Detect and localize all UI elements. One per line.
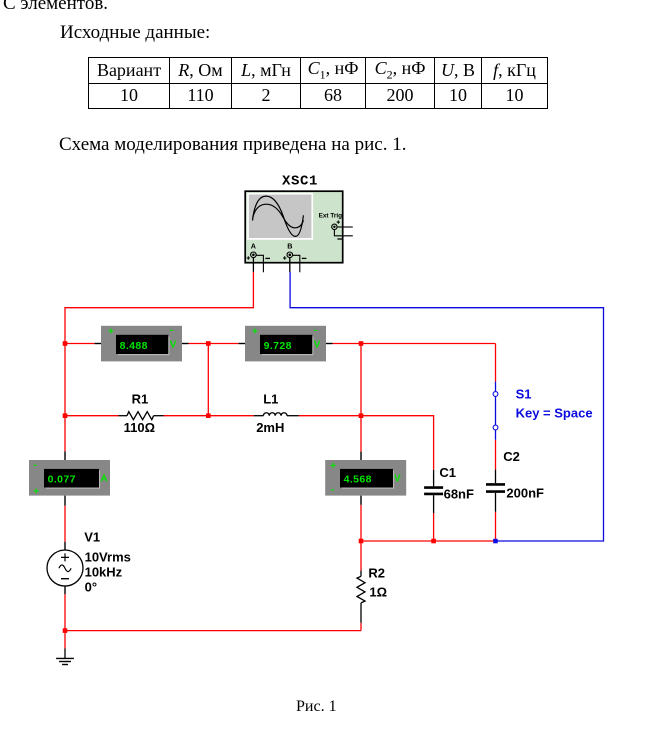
capacitor C2 [486,470,505,512]
junction node: mid node at voltmeter row [206,341,211,346]
wire: ammeter to V1 [64,506,66,542]
svg-text:+: + [252,327,258,338]
svg-text:+: + [33,487,39,498]
svg-text:A: A [251,241,256,250]
oscilloscope channel B pin stub [289,258,291,272]
oscilloscope channel A terminal [247,252,257,260]
wire: R2 bottom [360,623,362,631]
svg-text:C1: C1 [439,465,456,480]
junction node: left rail at voltmeter row [63,341,68,346]
svg-text:0°: 0° [85,580,97,595]
svg-text:XSC1: XSC1 [282,174,318,190]
wire: S1 to C2 [495,440,497,470]
svg-text:Ext Trig: Ext Trig [319,213,343,220]
wire: ground rail horizontal [65,630,361,632]
voltmeter U1 (8.488 V) [95,325,189,361]
oscilloscope channel B terminal [283,252,293,260]
oscilloscope Ext Trig terminal [332,220,340,229]
wire: scope channel A drop to left rail (red) [65,272,253,344]
svg-text:1Ω: 1Ω [369,585,387,600]
svg-text:+: + [108,327,114,338]
svg-text:V1: V1 [84,529,100,544]
wire: bottom net horizontal (red part) [361,540,496,542]
svg-text:V: V [394,474,401,485]
wire: scope channel B loop (blue) [290,272,603,541]
wire: L1 to C1 branch corner [299,416,434,470]
oscilloscope channel A minus lead [256,255,263,272]
oscilloscope channel A minus sign [265,257,270,259]
junction node: mid node at R1 row [206,413,211,418]
svg-text:110Ω: 110Ω [124,420,155,435]
wire: meter row between voltmeters [189,343,239,345]
wire: meter row to S1 branch [333,343,496,345]
svg-text:0.077: 0.077 [48,474,76,486]
ammeter U3 (0.077 A) [29,451,110,505]
wire: mid node vertical (between voltmeter row and R1 row) [207,344,209,416]
oscilloscope channel A pin stub [252,258,254,272]
svg-text:-: - [33,460,36,471]
svg-text:R2: R2 [368,566,385,581]
wire: node between second voltmeter and series voltmeter [360,344,362,416]
wire: meter row left [65,343,95,345]
svg-text:200nF: 200nF [506,486,544,501]
wire: series voltmeter drop [360,416,362,452]
oscilloscope channel B minus lead [293,255,300,272]
wire: V1 to ground rail [64,594,66,630]
voltmeter U4 (4.568 V) [325,452,406,505]
svg-text:V: V [170,340,177,351]
wire: R1 to L1 [164,415,254,417]
wire: R2 top [360,541,362,571]
wire: C2 to bottom net [495,512,497,541]
capacitor C1 [424,470,443,513]
svg-text:68nF: 68nF [444,486,474,501]
resistor R2 [357,571,365,623]
svg-text:C2: C2 [503,449,520,464]
junction node: L1 output node [359,413,364,418]
oscilloscope Ext Trig plus lead [337,226,353,228]
wire: left rail middle segment [64,344,66,416]
svg-text:4.568: 4.568 [344,474,372,486]
junction node: left rail at R1 row [63,413,68,418]
junction node: ground rail at V1 [63,628,68,633]
ground [56,649,74,665]
wire: C1 to bottom net [433,513,435,541]
resistor R1 [119,412,164,420]
wire: R1 row left [65,415,119,417]
svg-text:8.488: 8.488 [120,340,148,352]
wire: S1 branch down from meter row [495,344,497,382]
oscilloscope Ext Trig minus lead [334,230,352,236]
svg-text:V: V [314,340,321,351]
junction node: bottom net at C2 (blue) [493,539,498,544]
svg-text:2mH: 2mH [256,420,284,435]
svg-text:B: B [287,241,292,250]
junction node: right node at voltmeter row [359,341,364,346]
oscilloscope trace waveform channel B [253,204,304,228]
wire: left rail to ammeter [64,416,66,452]
svg-text:10Vrms: 10Vrms [85,550,131,565]
svg-text:-: - [314,325,317,336]
svg-text:A: A [100,474,107,485]
svg-text:-: - [331,485,334,496]
inductor L1 [254,413,299,416]
svg-text:9.728: 9.728 [264,340,292,352]
svg-text:R1: R1 [132,392,149,407]
svg-text:-: - [170,325,173,336]
wire: ground stub [64,631,66,649]
svg-text:S1: S1 [516,387,532,402]
voltmeter U2 (9.728 V) [239,325,333,361]
svg-text:L1: L1 [263,392,278,407]
junction node: bottom net at R2 [359,539,364,544]
junction node: bottom net at C1 [431,539,436,544]
oscilloscope trace waveform channel A [253,196,304,236]
wire: series voltmeter to bottom net [360,505,362,541]
switch S1 [493,382,498,440]
oscilloscope Ext Trig minus sign [337,238,342,240]
ac source V1 [47,542,83,594]
oscilloscope XSC1 body [245,191,343,263]
svg-text:10kHz: 10kHz [85,565,123,580]
svg-text:Key = Space: Key = Space [516,406,593,421]
svg-text:+: + [330,461,336,472]
oscilloscope channel B minus sign [302,257,307,259]
